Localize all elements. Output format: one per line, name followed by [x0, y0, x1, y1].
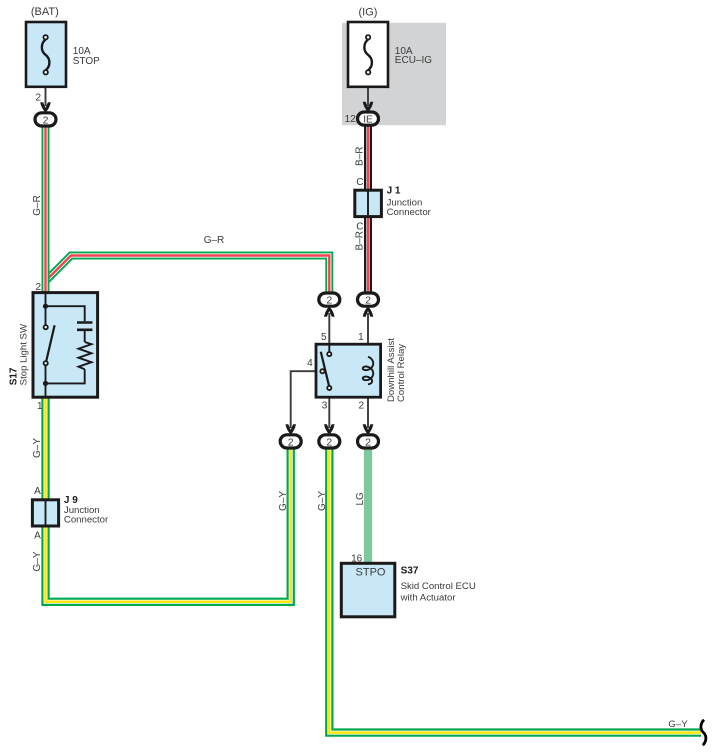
svg-text:Control Relay: Control Relay: [396, 344, 407, 402]
svg-text:ECU–IG: ECU–IG: [395, 55, 432, 66]
svg-text:Downhill Assist: Downhill Assist: [386, 338, 397, 402]
svg-text:STPO: STPO: [356, 567, 386, 579]
svg-text:A: A: [34, 486, 41, 497]
svg-text:G–Y: G–Y: [278, 491, 289, 511]
svg-text:G–Y: G–Y: [668, 719, 688, 730]
svg-text:2: 2: [35, 92, 41, 103]
svg-text:1: 1: [358, 332, 364, 343]
svg-text:Skid Control ECU: Skid Control ECU: [401, 581, 476, 592]
svg-text:G–Y: G–Y: [32, 551, 43, 571]
svg-text:G–R: G–R: [204, 235, 225, 246]
svg-text:16: 16: [351, 554, 363, 565]
svg-text:2: 2: [288, 436, 294, 448]
svg-text:2: 2: [365, 436, 371, 448]
svg-text:(BAT): (BAT): [31, 6, 59, 18]
svg-text:2: 2: [365, 295, 371, 307]
svg-text:with Actuator: with Actuator: [400, 592, 457, 603]
svg-text:Connector: Connector: [64, 514, 109, 525]
svg-text:G–Y: G–Y: [32, 438, 43, 458]
svg-text:2: 2: [358, 401, 364, 412]
svg-text:STOP: STOP: [73, 56, 100, 67]
svg-text:G–Y: G–Y: [317, 491, 328, 511]
svg-text:A: A: [34, 531, 41, 542]
svg-text:C: C: [356, 177, 363, 188]
svg-text:2: 2: [326, 436, 332, 448]
svg-text:5: 5: [321, 332, 327, 343]
svg-text:2: 2: [35, 282, 41, 293]
svg-text:3: 3: [322, 401, 328, 412]
svg-text:2: 2: [326, 295, 332, 307]
svg-text:1: 1: [37, 401, 43, 412]
svg-text:B–R: B–R: [355, 231, 366, 250]
svg-text:Stop Light SW: Stop Light SW: [19, 323, 30, 385]
svg-text:2: 2: [43, 114, 49, 126]
svg-text:C: C: [356, 222, 363, 233]
svg-text:12: 12: [345, 114, 357, 125]
svg-text:S37: S37: [401, 566, 419, 577]
svg-text:4: 4: [307, 358, 313, 369]
svg-text:Connector: Connector: [387, 207, 432, 218]
svg-text:(IG): (IG): [359, 7, 378, 19]
svg-text:LG: LG: [355, 492, 366, 506]
svg-text:IE: IE: [363, 115, 373, 126]
svg-text:G–R: G–R: [32, 195, 43, 216]
svg-text:J 1: J 1: [387, 186, 401, 197]
svg-text:B–R: B–R: [355, 147, 366, 166]
